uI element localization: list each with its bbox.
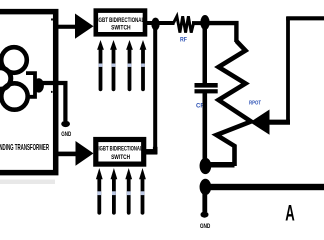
node N1 <box>200 158 212 174</box>
wire CF bottom to node N1 <box>203 93 208 166</box>
ghost shadow under transformer box <box>0 180 55 185</box>
node at RF / CF junction <box>200 15 209 30</box>
svg-text:RPOT: RPOT <box>249 101 261 107</box>
wire N2 to bottom GND <box>202 187 207 212</box>
wire W1 transformer to arrow A1 <box>56 25 76 29</box>
bracket joining windings <box>26 73 35 97</box>
wire U1 output to resistor RF <box>146 21 175 25</box>
wire RF to node <box>192 21 202 25</box>
gate arrow 2 of U1 <box>110 40 117 89</box>
gate arrow 3 of U2 <box>125 168 132 213</box>
arrow A2 into lower switch <box>76 141 94 166</box>
svg-text:IGBT BIDIRECTIONAL: IGBT BIDIRECTIONAL <box>99 145 143 152</box>
arrow A1 into upper switch <box>75 14 94 39</box>
gate arrow 1 of U2 <box>96 168 103 213</box>
svg-text:IGBT BIDIRECTIONAL: IGBT BIDIRECTIONAL <box>97 17 144 24</box>
gate arrow 2 of U2 <box>111 168 118 213</box>
speck dot top <box>51 18 53 20</box>
svg-text:A: A <box>285 200 295 225</box>
wire from node E1 to GND terminal <box>40 83 65 121</box>
capacitor CF top plate <box>195 83 218 88</box>
potentiometer RPOT zigzag <box>217 41 252 166</box>
gate arrow 1 of U1 <box>97 40 104 89</box>
gate arrow 4 of U2 <box>139 168 146 213</box>
node E1 (transformer output) <box>34 78 44 92</box>
speck dot middle <box>51 91 53 93</box>
GND terminal blob (left) <box>61 121 70 127</box>
svg-text:SWITCH: SWITCH <box>111 25 131 32</box>
transformer winding top circle <box>1 47 27 73</box>
GND terminal blob (bottom) <box>201 212 209 218</box>
output wire from N2 to right edge <box>205 184 324 190</box>
wire from node down to lower switch U2 <box>153 28 157 149</box>
wire RPOT bottom to node N1 <box>205 162 235 168</box>
gate arrow 4 of U1 <box>140 40 147 89</box>
RPOT wiper arrow <box>250 110 270 135</box>
capacitor CF bottom plate <box>195 89 218 93</box>
transformer winding left circle <box>0 68 11 90</box>
wiper wire to right rail <box>267 120 290 125</box>
svg-text:RF: RF <box>180 38 187 44</box>
IGBT bidirectional switch box U2 <box>96 140 144 165</box>
node after U1 <box>151 18 159 31</box>
svg-text:WINDING TRANSFORMER: WINDING TRANSFORMER <box>0 143 49 152</box>
wire node down to capacitor CF <box>203 28 208 84</box>
wire W2 transformer to arrow A2 <box>56 152 76 157</box>
IGBT bidirectional switch box U1 <box>96 11 145 35</box>
resistor RF <box>173 16 193 32</box>
svg-text:SWITCH: SWITCH <box>111 154 130 161</box>
wire node to RPOT top <box>208 23 236 42</box>
transformer T1 box <box>0 12 56 173</box>
gate arrow 3 of U1 <box>126 40 133 89</box>
svg-text:GND: GND <box>200 223 211 230</box>
svg-text:GND: GND <box>61 131 71 138</box>
node N2 <box>200 179 212 195</box>
transformer winding bottom circle <box>1 83 27 109</box>
